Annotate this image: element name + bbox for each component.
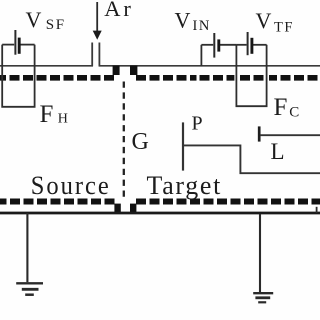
bottom plate (substrate holder) bbox=[0, 212, 320, 215]
svg-text:G: G bbox=[132, 129, 149, 155]
bottom electrode dashes (target side) bbox=[136, 199, 320, 205]
svg-text:C: C bbox=[289, 104, 299, 120]
plate right end tick bbox=[316, 207, 318, 213]
bottom electrode end block right bbox=[130, 204, 136, 214]
bottom electrode end block left bbox=[114, 204, 120, 214]
ground (target plate) bbox=[253, 214, 273, 302]
probe P bbox=[183, 122, 320, 173]
wire chamber lid right segment bbox=[99, 65, 320, 67]
top electrode end block right bbox=[130, 66, 137, 75]
svg-text:H: H bbox=[58, 111, 68, 126]
svg-text:F: F bbox=[274, 94, 288, 121]
top electrode dashes (target side) bbox=[136, 75, 197, 81]
svg-text:V: V bbox=[26, 7, 42, 32]
battery V_SF bbox=[2, 30, 34, 55]
filament box F_H bbox=[2, 45, 34, 107]
svg-text:Ar: Ar bbox=[104, 0, 134, 21]
node G boundary dashed line bbox=[123, 82, 125, 199]
wire chamber lid left segment bbox=[0, 65, 93, 67]
svg-text:P: P bbox=[192, 112, 203, 134]
svg-text:Target: Target bbox=[147, 171, 223, 200]
white notch at F_C box wire crossings in top dash row bbox=[234, 75, 239, 82]
battery V_TF bbox=[236, 32, 266, 55]
top electrode dashes (source side) bbox=[0, 75, 114, 81]
svg-text:IN: IN bbox=[193, 18, 211, 34]
top electrode end block left bbox=[113, 66, 120, 75]
ground (source plate) bbox=[16, 213, 43, 295]
filament box F_C bbox=[236, 45, 266, 106]
svg-text:SF: SF bbox=[46, 17, 66, 33]
svg-text:L: L bbox=[271, 139, 285, 164]
gas inlet tube (Ar port) bbox=[92, 43, 99, 67]
svg-text:F: F bbox=[40, 101, 54, 128]
svg-text:V: V bbox=[256, 8, 272, 33]
battery V_IN bbox=[201, 33, 236, 66]
svg-text:TF: TF bbox=[274, 19, 294, 35]
probe L bbox=[259, 126, 320, 141]
bottom electrode dashes (source side) bbox=[0, 199, 115, 205]
arrow Ar gas flow bbox=[93, 2, 102, 40]
svg-text:Source: Source bbox=[31, 171, 111, 200]
svg-text:V: V bbox=[175, 8, 191, 33]
